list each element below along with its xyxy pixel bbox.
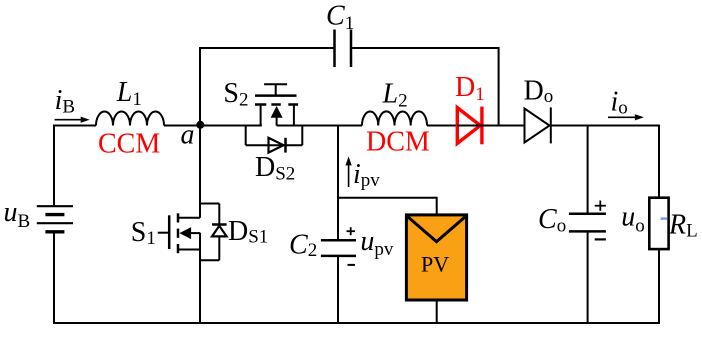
wire top-left horizontal to L1 xyxy=(53,125,96,127)
wire PV top vertical xyxy=(436,197,438,215)
capacitor Co xyxy=(569,214,606,232)
label Co minus xyxy=(595,238,606,240)
capacitor C2 xyxy=(321,240,356,256)
wire S1 drain vertical xyxy=(199,126,201,218)
arrow iB xyxy=(55,117,90,123)
wire top rail to C1 xyxy=(199,47,335,49)
wire PV top horizontal xyxy=(338,197,437,199)
wire right vertical bottom xyxy=(658,249,660,323)
transistor S2 xyxy=(255,84,298,125)
wire C2 branch bottom xyxy=(337,256,339,323)
wire left vertical battery top xyxy=(53,126,55,207)
arrow io xyxy=(608,114,644,120)
wire L1 to S2 xyxy=(164,125,262,127)
wire S2 to L2 xyxy=(277,125,362,127)
svg-text:PV: PV xyxy=(421,251,449,276)
diode D1 xyxy=(457,107,482,145)
wire left vertical battery bottom xyxy=(53,232,55,323)
wire Do to right corner xyxy=(549,125,660,127)
capacitor C1 xyxy=(335,30,352,68)
diode DS1 branch xyxy=(200,204,227,261)
PV panel xyxy=(406,215,466,300)
wire D1 to Do xyxy=(457,125,525,127)
label C2 plus xyxy=(347,227,356,235)
battery uB xyxy=(37,206,73,232)
wire right vertical top xyxy=(658,125,660,199)
wire C1 to right drop xyxy=(351,47,499,49)
wire bottom rail xyxy=(53,322,660,324)
transistor S1 xyxy=(158,213,200,253)
arrow ipv xyxy=(346,156,352,187)
wire L2 to D1 xyxy=(427,125,457,127)
svg-text:a: a xyxy=(181,120,195,151)
svg-text:DCM: DCM xyxy=(366,126,430,157)
svg-text:CCM: CCM xyxy=(98,129,160,160)
wire C2 branch top xyxy=(337,126,339,241)
wire S1 source vertical xyxy=(199,233,201,323)
diode DS2 loop xyxy=(246,126,303,153)
label C2 minus xyxy=(348,264,356,266)
wire Co branch top xyxy=(587,126,589,214)
wire node a up xyxy=(199,48,201,126)
inductor L1 xyxy=(96,112,164,126)
inductor L2 xyxy=(362,111,427,125)
wire PV bottom vertical xyxy=(436,300,438,323)
node a junction dot xyxy=(196,121,204,129)
wire right drop of C1 branch xyxy=(498,47,500,126)
resistor RL xyxy=(649,198,668,249)
diode Do xyxy=(525,107,551,143)
blue artifact dash in RL xyxy=(661,217,667,219)
label Co plus xyxy=(595,201,606,211)
wire Co branch bottom xyxy=(587,231,589,323)
